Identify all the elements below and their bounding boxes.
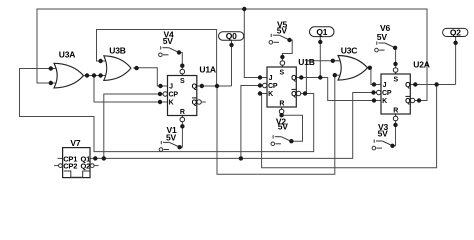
or-gate U3A (54, 63, 84, 88)
wire Q1 probe riser (319, 37, 321, 78)
probe oval Q0 (219, 32, 244, 41)
flip-flop U2A pin labels (382, 77, 411, 115)
svg-text:5V: 5V (278, 121, 289, 131)
svg-text:Q0: Q0 (226, 31, 237, 41)
wire clock line from V7 Q1 (90, 93, 374, 159)
flip-flop U2A CP bubble (377, 90, 381, 94)
svg-text:5V: 5V (277, 26, 288, 36)
wire U3C output to J U2A (367, 68, 374, 85)
svg-text:S: S (180, 78, 185, 85)
wire net Q2A-bar feedback top (37, 9, 427, 101)
flip-flop U2A box (381, 74, 410, 114)
wire net Q0 to U3B input1 (97, 30, 217, 87)
svg-text:U3A: U3A (59, 50, 75, 60)
wire net Q1B-bar left loop (20, 69, 314, 152)
wire U2A K pin stub (374, 100, 381, 102)
flip-flop U2A Qbar bubble (410, 98, 414, 102)
clock source V7 box (63, 148, 90, 178)
wire clock riser to CP U1A (104, 94, 160, 158)
wire U1B CP pin stub (260, 85, 263, 87)
svg-text:Q: Q (192, 84, 198, 91)
svg-text:J: J (383, 82, 387, 89)
clock source V7 pin labels (63, 154, 90, 170)
svg-text:Q2: Q2 (81, 161, 91, 170)
wire U2A CP pin stub (374, 92, 377, 94)
svg-text:R: R (393, 108, 398, 115)
wire Q1B-bar to U3C input1 (305, 61, 341, 94)
svg-text:U2A: U2A (413, 59, 429, 69)
probe oval Q1 (310, 27, 335, 37)
flip-flop U1A box (168, 76, 197, 116)
svg-text:5V: 5V (163, 36, 174, 46)
or-gate U3B output stub (133, 67, 136, 69)
svg-text:CP: CP (382, 90, 392, 97)
svg-text:K: K (169, 99, 174, 106)
wire V3 switch to R U2A (393, 121, 396, 146)
flip-flop U1A CP bubble (163, 92, 167, 96)
flip-flop U2A R bubble (393, 116, 398, 121)
flip-flop U1B box (267, 67, 296, 107)
svg-text:CP: CP (268, 83, 278, 90)
wire clock riser to CP U1B (241, 86, 260, 159)
wire U1A CP pin stub (160, 93, 163, 95)
flip-flop U1A pin labels (169, 78, 198, 116)
svg-text:CP: CP (169, 91, 179, 98)
wire U3A input2 into gate (51, 82, 57, 84)
wire U3A output to K of U1A (94, 76, 160, 103)
wire V5 switch to S U1B (282, 40, 292, 61)
flip-flop U1B pin labels (268, 70, 297, 108)
svg-text:5V: 5V (166, 133, 177, 143)
svg-text:Q1: Q1 (316, 27, 327, 37)
wire Q2A-bar stub (415, 100, 419, 102)
wire Q0 probe riser (231, 41, 233, 87)
wire Q output U1A (197, 85, 232, 87)
wire K U1B to Q U2A bottom route (260, 85, 437, 168)
flip-flop U1B CP bubble (263, 83, 267, 87)
svg-text:S: S (393, 77, 398, 84)
switch V5 (269, 34, 289, 44)
wire U3A output to U3B input2 (84, 75, 106, 77)
flip-flop U2A S bubble (393, 68, 398, 73)
svg-text:Q: Q (405, 98, 411, 105)
svg-text:Q: Q (291, 91, 297, 98)
svg-text:5V: 5V (377, 32, 388, 42)
flip-flop U1B R bubble (279, 109, 284, 114)
wire U3C input1 into gate (333, 60, 341, 62)
wire V7 CP1 stub (58, 157, 63, 159)
switch V4 (159, 46, 179, 56)
wire U3B input1 into gate (101, 60, 107, 62)
wire J U1B riser from top line (244, 9, 260, 78)
svg-text:J: J (169, 84, 173, 91)
svg-text:CP2: CP2 (63, 161, 77, 170)
wire V2 R loop U1B (282, 114, 303, 141)
svg-text:Q: Q (291, 75, 297, 82)
wire U1A J pin stub (161, 85, 168, 87)
flip-flop U1A R bubble (180, 117, 185, 122)
svg-text:U3B: U3B (109, 46, 125, 56)
svg-text:V7: V7 (70, 138, 80, 148)
svg-text:R: R (180, 109, 185, 116)
wire U1B Q-bar stub (301, 93, 305, 95)
wire U2A J pin stub (374, 84, 381, 86)
svg-text:J: J (269, 75, 273, 82)
svg-text:Q2: Q2 (450, 27, 461, 37)
wire U3A input1 into gate (51, 68, 57, 70)
svg-text:U1B: U1B (298, 57, 314, 67)
wire V4 switch to S U1A (179, 53, 182, 70)
wire Q output U1B to K U2A (296, 78, 374, 101)
probe oval Q0 pin stub (231, 40, 233, 45)
wire U1A K pin stub (160, 101, 168, 103)
or-gate U3A output stub (84, 75, 88, 77)
flip-flop U1B Qbar overbar (292, 88, 296, 90)
flip-flop U1A Qbar bubble (197, 100, 201, 104)
switch V3 (372, 140, 392, 150)
wire U1A Q pin stub covered by Q wire (197, 85, 203, 87)
svg-text:R: R (279, 101, 284, 108)
probe oval labels (226, 27, 462, 41)
switch V6 (375, 42, 395, 52)
wire U1B J pin stub (260, 77, 267, 79)
svg-text:5V: 5V (378, 128, 389, 138)
flip-flop U1A Qbar overbar (192, 97, 196, 99)
wire U3B output to J U1A (134, 68, 161, 86)
wire V1 switch to R U1A (180, 122, 183, 147)
clock source V7 Q2 pin circle (90, 164, 94, 168)
clock source V7 square wave glyph (64, 171, 90, 177)
or-gate U3C output stub (368, 67, 370, 69)
or-gate U3C (338, 56, 368, 81)
switch V1 (159, 141, 179, 151)
flip-flop U1A S bubble (180, 69, 185, 74)
flip-flop U1B Qbar bubble (296, 91, 300, 95)
wire Q output U2A (410, 84, 455, 86)
switch V2 (271, 135, 291, 145)
svg-text:U3C: U3C (341, 46, 357, 56)
probe oval Q2 (443, 28, 468, 36)
wire U1B K pin stub (260, 93, 267, 95)
wire V6 switch to S U2A (394, 48, 397, 68)
svg-text:Q: Q (192, 99, 198, 106)
svg-text:K: K (268, 91, 273, 98)
wire V7 CP2 stub (54, 165, 58, 167)
flip-flop U1B S bubble (280, 61, 285, 66)
wire Q0 bottom route to U3C input2 (217, 75, 335, 174)
svg-text:K: K (382, 98, 387, 105)
wire V7 Q2 stub (94, 165, 98, 167)
or-gate U3B (104, 56, 131, 81)
svg-text:U1A: U1A (199, 64, 215, 74)
wire U1A Q-bar stub (202, 101, 206, 103)
svg-text:S: S (280, 70, 285, 77)
wire U3C input2 into gate (335, 74, 341, 76)
flip-flop U2A Qbar overbar (406, 95, 410, 97)
wire Q2 probe riser (455, 37, 457, 85)
clock source V7 CP2 pin circle (59, 164, 63, 168)
svg-text:Q: Q (405, 82, 411, 89)
